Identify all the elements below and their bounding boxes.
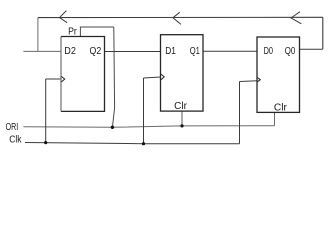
svg-text:Clk: Clk xyxy=(9,135,22,146)
clock wedge U2 xyxy=(161,74,164,80)
clock wedge U3 xyxy=(257,78,260,82)
svg-text:D0: D0 xyxy=(264,46,274,57)
wire: ORI horizontal line xyxy=(23,126,274,128)
clock wedge U1 xyxy=(61,76,64,82)
svg-text:Clr: Clr xyxy=(174,101,187,112)
wire: feedback left vertical from top rail to D2 node xyxy=(37,18,39,52)
wire: clock vertical to U2 xyxy=(143,78,145,144)
wire: Clr drop of U2 to ORI line xyxy=(181,111,183,126)
svg-text:D1: D1 xyxy=(165,46,176,57)
arrowhead on top rail (right) xyxy=(291,12,301,24)
wire: Clk horizontal line xyxy=(25,143,240,144)
arrowhead on top rail (middle) xyxy=(173,12,181,24)
wire: ORI to Pr vertical drop (slightly slanted) xyxy=(112,27,114,127)
junction dot: U2 clock on Clk line xyxy=(142,142,145,145)
wire: Q1 to D0 xyxy=(203,50,257,52)
wire: clock vertical to U1 xyxy=(45,79,47,143)
wire: Clr riser of U3 from ORI line end xyxy=(274,112,276,125)
svg-text:Clr: Clr xyxy=(274,102,288,113)
wire: D2 input stub xyxy=(23,50,61,52)
wire: Pr connection up-and-over from FF1 top to ORI drop xyxy=(80,27,113,37)
svg-text:ORI: ORI xyxy=(6,122,19,133)
svg-text:Q0: Q0 xyxy=(285,46,296,57)
arrowhead on top rail (left) xyxy=(60,11,68,23)
svg-text:D2: D2 xyxy=(64,46,76,57)
svg-text:Q2: Q2 xyxy=(90,46,102,57)
wire: clock stub into U1 xyxy=(46,78,61,80)
wire: top feedback rail Q0 to D2 xyxy=(38,16,323,18)
wire: clock stub into U2 xyxy=(144,77,161,78)
wire: feedback right vertical from Q0 line up to top rail xyxy=(322,17,324,49)
flip-flop U1 box xyxy=(61,37,105,112)
wire: clock stub into U3 xyxy=(240,80,258,83)
svg-text:Q1: Q1 xyxy=(190,46,201,57)
junction dot: U2 Clr on ORI line xyxy=(180,124,183,127)
flip-flop U2 box xyxy=(161,35,204,111)
wire: clock vertical to U3 xyxy=(239,82,241,144)
svg-text:Pr: Pr xyxy=(68,27,77,38)
wire: Q2 to D1 xyxy=(105,51,161,53)
junction dot: U1 clock on Clk line xyxy=(44,141,47,144)
junction dot: Pr drop on ORI line xyxy=(111,126,114,129)
wire: Q0 output to feedback corner xyxy=(300,48,323,50)
flip-flop U3 box xyxy=(257,37,300,112)
